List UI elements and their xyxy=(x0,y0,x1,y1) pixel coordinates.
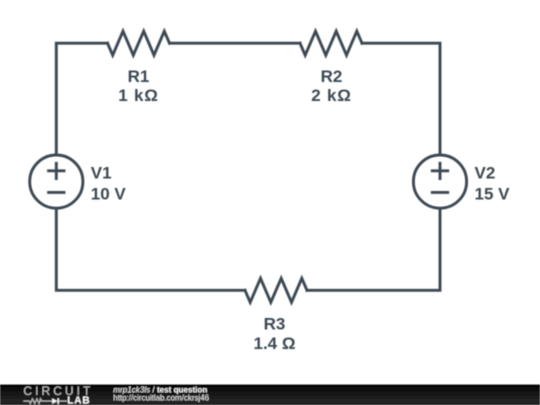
svg-text:LAB: LAB xyxy=(67,396,90,405)
footer black bar xyxy=(0,385,540,405)
wire top-right segment (R2 right lead to V2 + terminal) xyxy=(362,43,440,153)
svg-text:R1: R1 xyxy=(128,67,150,86)
wire top-left segment (node from V1+ to R1 left lead) xyxy=(56,43,107,153)
svg-text:R2: R2 xyxy=(321,67,343,86)
wire top-middle segment (R1 right lead to R2 left lead) xyxy=(170,42,301,45)
svg-text:http://circuitlab.com/ckrsj46: http://circuitlab.com/ckrsj46 xyxy=(113,393,209,402)
svg-text:V2: V2 xyxy=(475,163,496,182)
logo diode wire xyxy=(59,400,67,402)
svg-text:10 V: 10 V xyxy=(91,184,127,203)
V2 plus sign xyxy=(432,163,447,178)
logo diode symbol xyxy=(52,398,57,404)
wire bottom-right segment (R3 right lead to V2 - terminal) xyxy=(307,210,440,291)
voltage source V1 circle xyxy=(30,155,83,208)
resistor R3 zigzag body xyxy=(245,278,307,302)
svg-text:R3: R3 xyxy=(264,315,286,334)
svg-text:2 kΩ: 2 kΩ xyxy=(311,86,351,105)
resistor R2 zigzag body xyxy=(300,31,362,55)
V1 plus sign xyxy=(49,163,64,178)
svg-text:15 V: 15 V xyxy=(475,184,511,203)
wire left-bottom segment (V1 - terminal to bottom-left corner) xyxy=(56,210,245,291)
voltage source V2 circle xyxy=(413,155,466,208)
svg-text:1 kΩ: 1 kΩ xyxy=(118,86,158,105)
V1 minus sign xyxy=(49,191,64,194)
resistor R1 zigzag body xyxy=(108,31,170,55)
V2 minus sign xyxy=(432,191,447,194)
svg-text:1.4 Ω: 1.4 Ω xyxy=(254,334,296,353)
svg-text:V1: V1 xyxy=(91,163,112,182)
logo resistor zigzag and lead wire xyxy=(23,399,52,403)
